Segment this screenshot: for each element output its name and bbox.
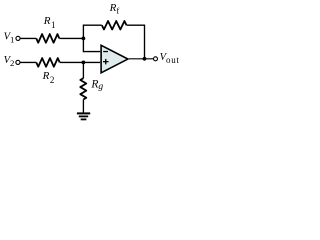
wire xyxy=(83,38,100,51)
resistor R2 xyxy=(36,58,59,67)
svg-text:R1: R1 xyxy=(43,15,56,30)
svg-text:Rf: Rf xyxy=(109,2,120,16)
terminal V1 xyxy=(16,36,20,40)
resistor Rf xyxy=(102,21,127,30)
resistor Rg xyxy=(80,78,86,99)
terminal Vout xyxy=(154,57,158,61)
op-amp U1 xyxy=(101,45,128,73)
wire xyxy=(20,37,36,39)
wire xyxy=(129,58,154,60)
wire xyxy=(83,25,101,38)
wire xyxy=(82,62,84,78)
ground xyxy=(77,113,90,119)
wire xyxy=(127,25,145,59)
wire xyxy=(59,37,83,39)
terminal V2 xyxy=(16,60,20,64)
svg-text:Rg: Rg xyxy=(90,79,103,92)
node output xyxy=(143,57,147,61)
node A xyxy=(82,37,86,41)
svg-text:V1: V1 xyxy=(4,31,15,44)
svg-text:R2: R2 xyxy=(42,70,55,85)
wire xyxy=(60,61,100,63)
svg-text:Vout: Vout xyxy=(160,52,180,65)
resistor R1 xyxy=(36,34,59,43)
wire xyxy=(20,61,36,63)
svg-text:V2: V2 xyxy=(4,55,15,68)
wire xyxy=(82,100,84,113)
node B xyxy=(82,61,86,65)
